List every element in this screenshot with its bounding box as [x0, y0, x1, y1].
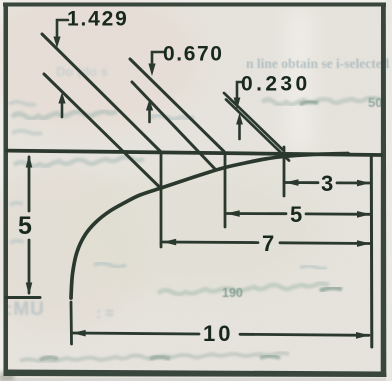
svg-text:1.429: 1.429: [67, 8, 129, 31]
diagonal 0.670 lower: [132, 82, 215, 169]
arrowhead right 5-dim: [357, 211, 371, 218]
arrowhead down left-5-dim: [26, 283, 33, 296]
arrowhead left 5-dim: [226, 210, 240, 217]
frame border left: [4, 3, 9, 374]
arrowhead right 10-dim: [356, 332, 370, 339]
frame border bottom: [4, 370, 387, 378]
arrowhead leader-down 0.230: [234, 98, 241, 111]
arrowhead up 1.429: [58, 92, 65, 104]
arrowhead leader-down 0.670: [148, 64, 155, 77]
arrowhead left 3-dim: [285, 179, 299, 186]
svg-text:50: 50: [368, 95, 382, 110]
ghost small marks right mid: [300, 266, 327, 269]
up-arrow stem 0.230: [238, 124, 241, 139]
7-dim line left seg: [163, 241, 258, 244]
leader 1.429: [57, 20, 68, 37]
pinkish tint top-left: [0, 0, 200, 130]
7-dim line right seg: [280, 241, 370, 244]
svg-text:190: 190: [222, 286, 243, 300]
warm tint mid-left: [0, 170, 150, 330]
10-dim line left seg: [72, 333, 199, 334]
svg-text:0.230: 0.230: [241, 73, 311, 96]
extension line x7 (7-dim): [160, 155, 163, 247]
svg-text:5: 5: [18, 212, 32, 240]
up-arrow stem 0.670: [148, 110, 151, 122]
5-dim line left seg: [226, 212, 286, 215]
svg-text:7: 7: [262, 231, 274, 256]
ghost row E (above 10-row): [158, 284, 329, 295]
10-dim line right seg: [240, 334, 369, 335]
ghost left margin marks: [9, 102, 42, 243]
svg-text:: =: : =: [96, 305, 114, 322]
greenish tint middle: [70, 160, 330, 300]
extension line x3 (3-dim): [283, 147, 286, 196]
arrowhead up 0.230: [236, 113, 243, 125]
main horizontal line: [7, 151, 381, 155]
ghost squiggle row C (left, arabic bleed): [12, 111, 117, 119]
5-dim line right seg: [306, 212, 370, 215]
arrowhead right 7-dim: [357, 240, 371, 247]
diagonal 0.670 upper: [130, 59, 224, 152]
leader 0.670: [152, 52, 164, 64]
svg-text::MU: :MU: [6, 299, 45, 320]
extension line x5 (5-dim): [224, 155, 227, 227]
extension line x=7 (below curve end, for 10-dim): [70, 302, 73, 344]
bottom outer strip: [0, 376, 392, 381]
ghost squiggle row B (right, arabic bleed): [262, 97, 380, 104]
frame border top: [3, 3, 386, 7]
bottom-left outside gray smudge: [0, 372, 14, 381]
3-dim line left seg: [285, 181, 318, 184]
curve: [71, 154, 348, 299]
arrowhead up 0.670: [146, 99, 153, 111]
svg-text:n line obtain se i-selected ob: n line obtain se i-selected obti: [246, 56, 392, 71]
ghost row G (bottom above border): [20, 353, 289, 361]
leader 0.230: [237, 82, 242, 97]
3-dim line right seg: [337, 181, 370, 184]
right extension line common: [370, 157, 374, 347]
arrowhead right 3-dim: [357, 180, 371, 187]
diagonal 0.230 lower: [226, 100, 289, 161]
ghost darker bits row G: [40, 356, 280, 360]
ghost faint under diagonals: [150, 115, 194, 119]
frame border right: [381, 3, 387, 377]
svg-text:5: 5: [290, 202, 302, 227]
ghost squiggle row under main line left: [14, 157, 144, 166]
left 5-dim vertical line lower seg: [28, 240, 31, 293]
ghost small marks H: [94, 263, 126, 267]
svg-text:Do (do s: Do (do s: [56, 64, 108, 79]
diagonal 1.429 lower: [44, 74, 161, 189]
arrowhead left 10-dim: [72, 330, 86, 337]
diagonal 0.230 upper: [224, 93, 283, 150]
svg-text:0.670: 0.670: [163, 43, 224, 66]
bottom reference tick for left 5-dim: [6, 296, 40, 299]
diagonal 1.429 upper: [42, 34, 161, 152]
arrowhead up left-5-dim: [26, 155, 33, 168]
arrowhead leader-down 1.429: [53, 37, 60, 49]
svg-text:10: 10: [203, 321, 233, 346]
top-right outside lighter: [386, 0, 392, 381]
up-arrow stem 1.429: [61, 103, 64, 117]
arrowhead left 7-dim: [163, 239, 177, 246]
left 5-dim vertical line upper seg: [28, 157, 31, 211]
ghost dark blob row E right: [320, 288, 342, 291]
svg-text:3: 3: [321, 171, 333, 196]
light streak right of center: [286, 10, 312, 150]
